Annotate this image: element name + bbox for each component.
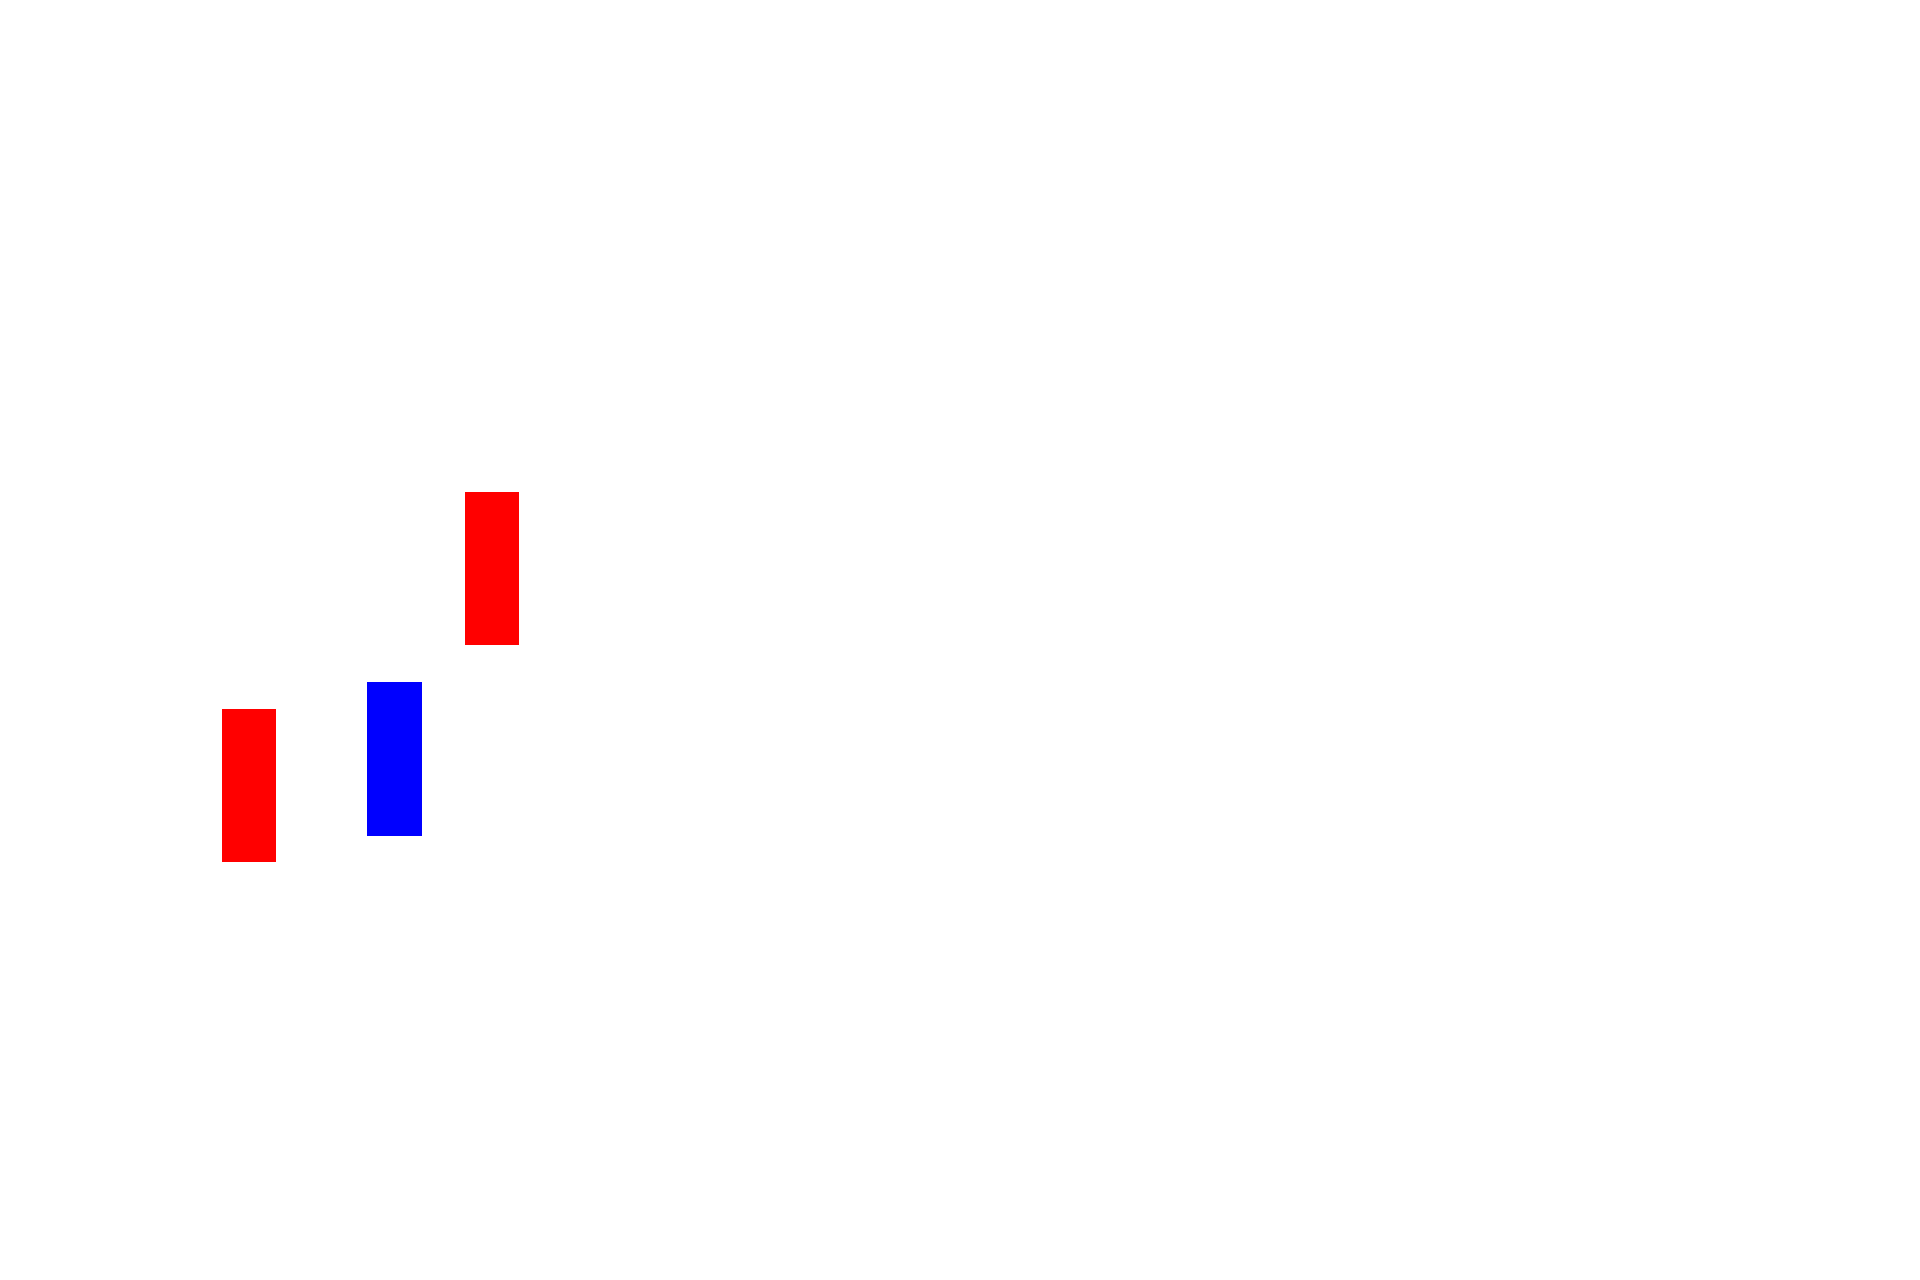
red bar 1 (left) [222,709,276,862]
blue bar 2 (middle) [367,682,422,836]
red bar 3 (top right) [465,492,519,645]
